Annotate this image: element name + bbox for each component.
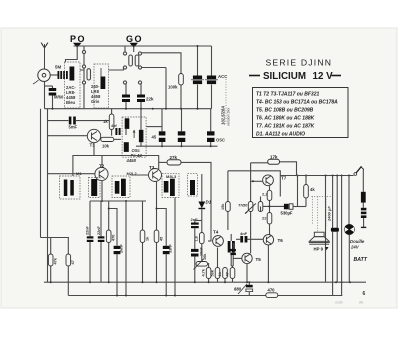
svg-text:470: 470 (112, 235, 116, 241)
svg-text:xx3b: xx3b (335, 301, 343, 305)
wire T2 base (48, 173, 96, 175)
switch on/off (354, 166, 364, 175)
svg-text:45: 45 (160, 237, 164, 241)
resistor R10 15k (221, 171, 230, 230)
capacitor C4 (191, 45, 204, 109)
wire M2L2 down (125, 201, 127, 296)
resistor R22 470 (266, 287, 278, 297)
svg-text:12 V: 12 V (313, 71, 334, 82)
capacitor C9 OSC (207, 109, 225, 147)
capacitor C21 blob (331, 176, 339, 296)
resistor R23 black (361, 170, 366, 208)
IF transformer box M1 (60, 171, 83, 199)
svg-text:4nF: 4nF (240, 231, 248, 236)
capacitor C12 2knF (108, 208, 124, 296)
wire T7 base (251, 180, 263, 182)
svg-text:1,8: 1,8 (195, 236, 199, 241)
wire 5mF branch (48, 120, 69, 122)
svg-text:45: 45 (152, 135, 157, 140)
capacitor M/60 (45, 86, 64, 110)
svg-text:2knF: 2knF (120, 243, 124, 253)
transistor T7 (263, 175, 274, 186)
svg-text:33nF: 33nF (169, 243, 173, 253)
transistor T3 (149, 169, 162, 182)
resistor R8 47k (154, 182, 163, 283)
wire M3L3 down (174, 198, 176, 296)
IF transformer box M3L3 (162, 174, 179, 198)
svg-text:1k: 1k (103, 119, 108, 124)
lamp (344, 176, 354, 283)
wire supply bus 2 (68, 295, 266, 297)
resistor R9 1,8 (195, 233, 205, 262)
svg-text:SILICIUM: SILICIUM (263, 71, 306, 82)
capacitor C7 4,5 (147, 109, 166, 147)
resistor R19 (226, 266, 235, 282)
wire osc mid rail (136, 145, 218, 147)
svg-text:OSC: OSC (216, 138, 225, 143)
svg-text:47: 47 (71, 260, 75, 264)
capacitor C19 (230, 243, 236, 266)
coil L2 GO box (94, 64, 109, 108)
svg-text:22k: 22k (146, 97, 154, 102)
svg-text:D1. AA112 ou AUDIO: D1. AA112 ou AUDIO (256, 132, 305, 138)
svg-text:10k: 10k (203, 253, 207, 260)
svg-text:5M: 5M (55, 65, 62, 70)
coil L1 PO box (65, 62, 81, 108)
resistor R16 (202, 263, 211, 282)
svg-text:T1 T2 T3-TJA117 ou BF321: T1 T2 T3-TJA117 ou BF321 (256, 92, 319, 98)
transistor T6 (263, 235, 273, 245)
wire 530uF to rail (297, 176, 299, 207)
resistor R6 470 (106, 201, 115, 282)
antenna jack circle (38, 69, 50, 81)
svg-text:ACC: ACC (218, 74, 227, 79)
switch bank S2 (123, 46, 166, 84)
wire AVC bus (45, 108, 212, 110)
antenna (41, 43, 48, 70)
IF transformer box L4 (188, 174, 198, 196)
capacitor C13 33nF (156, 208, 173, 296)
resistor R1 100k (142, 53, 184, 109)
svg-text:T6: T6 (278, 238, 284, 243)
svg-text:T4: T4 (213, 230, 219, 235)
capacitor C16 530uF (281, 204, 298, 216)
svg-text:T7: T7 (281, 176, 287, 181)
capacitor C20 880 (234, 281, 253, 295)
svg-text:22nF: 22nF (86, 225, 90, 235)
svg-text:22nF: 22nF (97, 225, 101, 235)
capacitor C14 2nF (191, 217, 202, 249)
capacitor C3 22k (137, 95, 145, 103)
transistor T5 (233, 253, 252, 263)
svg-text:4k: 4k (310, 187, 315, 192)
svg-text:5mF: 5mF (69, 125, 78, 130)
wire T6/T5 column (250, 163, 252, 202)
wire antenna down (44, 81, 46, 108)
IF transformer box M2 (89, 178, 101, 198)
transistor T2 (95, 167, 108, 180)
resistor R12 2,2 (262, 186, 272, 212)
capacitor C2 (122, 95, 130, 103)
resistor R2 1k (103, 109, 114, 136)
svg-text:T6. AC 180K ou AC 188K: T6. AC 180K ou AC 188K (256, 116, 315, 122)
svg-text:47k: 47k (54, 257, 58, 264)
svg-text:T4- BC 153 ou BC171A ou BC178A: T4- BC 153 ou BC171A ou BC178A (256, 100, 338, 106)
svg-text:M1: M1 (76, 171, 82, 176)
resistor R13 22 (262, 213, 272, 235)
svg-text:27k: 27k (170, 155, 178, 160)
wire mid AF node (263, 205, 284, 207)
resistor R7 27k (140, 201, 149, 282)
switch bank S1 (82, 46, 90, 109)
svg-text:56k: 56k (211, 269, 215, 276)
resistor R15 4k (298, 175, 316, 207)
capacitor C18 22uF (228, 234, 235, 266)
resistor R18 (218, 268, 227, 283)
svg-text:T5. BC 108B ou BC209B: T5. BC 108B ou BC209B (256, 108, 314, 114)
speaker HP (309, 232, 330, 251)
resistor R3 (101, 137, 114, 141)
svg-text:HP 9: HP 9 (314, 246, 324, 251)
wire AF rail upper (228, 171, 280, 197)
svg-text:47: 47 (226, 272, 230, 276)
IF transformer box M2L2 (112, 171, 138, 198)
svg-text:Douille: Douille (350, 239, 365, 244)
svg-text:2,2: 2,2 (262, 192, 268, 197)
svg-text:T7. AC 181K ou AC 187K: T7. AC 181K ou AC 187K (256, 124, 315, 130)
svg-text:4458: 4458 (126, 158, 137, 163)
wire ground bus 1 (44, 281, 366, 283)
svg-text:BATT: BATT (354, 257, 368, 263)
svg-text:4nf: 4nf (111, 124, 117, 128)
svg-text:470: 470 (268, 287, 276, 292)
svg-text:24V: 24V (350, 245, 360, 250)
capacitor C10 22nF (86, 201, 94, 282)
svg-text:6: 6 (363, 291, 366, 297)
svg-text:T5: T5 (256, 257, 262, 262)
resistor R11 17k (268, 154, 280, 164)
wire GO coil link (80, 69, 84, 71)
svg-text:Th50: Th50 (238, 203, 248, 208)
svg-text:2400 µF: 2400 µF (327, 206, 332, 222)
transistor list box (253, 88, 349, 138)
wire supply rail IF (73, 156, 159, 177)
svg-text:100k: 100k (168, 85, 178, 90)
capacitor C5 (205, 46, 218, 109)
svg-text:15k: 15k (221, 203, 225, 210)
label Douille 24V (350, 239, 365, 250)
resistor R24 striped (361, 208, 367, 228)
svg-text:Ab: Ab (359, 301, 363, 305)
svg-text:880: 880 (234, 287, 242, 292)
potentiometer volume (194, 253, 208, 270)
capacitor C6 5mF (69, 117, 76, 125)
diode D1 (198, 174, 211, 233)
svg-text:M2L2: M2L2 (127, 171, 138, 176)
wire 17k feed (280, 162, 297, 176)
svg-text:M3L3: M3L3 (166, 174, 177, 179)
capacitor C17 4nF (236, 231, 263, 243)
svg-text:M/60: M/60 (54, 95, 64, 100)
svg-text:Gris: Gris (91, 99, 100, 104)
svg-text:102,5/28A: 102,5/28A (221, 106, 226, 125)
capacitor C8 trimmer (178, 109, 186, 147)
svg-text:GO: GO (126, 34, 143, 44)
wire left column (47, 109, 49, 283)
wire T1 base (48, 135, 88, 137)
svg-text:17k: 17k (270, 154, 278, 159)
transistor T1 (87, 129, 100, 142)
resistor R17 (211, 248, 220, 283)
svg-text:530µF: 530µF (281, 211, 293, 216)
resistor R14 (258, 197, 263, 212)
svg-text:T2: T2 (99, 164, 105, 169)
capacitor C15 10nF (191, 246, 204, 282)
trimmer Th (238, 202, 256, 254)
wire dotted speaker links (312, 197, 333, 233)
wire PO stem (66, 46, 78, 62)
svg-text:version 9xx: version 9xx (227, 108, 231, 126)
svg-text:Bleu: Bleu (66, 100, 76, 105)
wire main supply rail (280, 175, 353, 177)
svg-text:4,7k: 4,7k (202, 268, 206, 276)
svg-text:10k: 10k (102, 144, 110, 149)
resistor R20 47k left (41, 109, 70, 283)
svg-text:SERIE DJINN: SERIE DJINN (266, 58, 333, 68)
wire to bus (165, 68, 167, 109)
oscillator coil box OSC (122, 117, 146, 157)
transistor T4 (213, 236, 224, 247)
capacitor C11 22nF (97, 201, 104, 282)
wire output verticals (325, 176, 327, 283)
resistor R21 47 left (66, 238, 75, 296)
svg-text:T3: T3 (149, 165, 155, 170)
resistor R5 27k (159, 155, 211, 235)
svg-text:PO: PO (70, 34, 86, 44)
wire IF bottom rail (90, 200, 146, 202)
svg-text:D1: D1 (206, 200, 212, 205)
svg-text:22: 22 (262, 216, 267, 221)
capacitor C22 (115, 128, 120, 135)
wire top bus (74, 45, 212, 47)
